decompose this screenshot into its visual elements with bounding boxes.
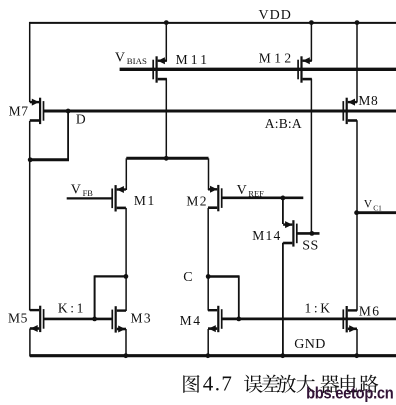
- wire M7 source lead from VDD rail: [29, 22, 31, 102]
- svg-text:M8: M8: [358, 93, 378, 108]
- caption character 差: [262, 375, 280, 392]
- wire M8 drain down to VC1 node and M6 drain: [356, 120, 358, 311]
- transistor M3: [112, 306, 126, 332]
- wire VDD top rail: [30, 22, 396, 24]
- caption character 大: [297, 375, 315, 393]
- wire C branch horizontal: [208, 275, 239, 277]
- transistor M5: [30, 306, 44, 332]
- svg-text:M14: M14: [252, 228, 281, 243]
- junction GND / M3 source: [123, 353, 128, 358]
- junction GND / M14 source: [280, 353, 285, 358]
- wire M3 source to GND: [125, 329, 127, 356]
- wire VREF gate line: [222, 197, 304, 200]
- wire M12 drain down to SS node: [310, 79, 312, 234]
- wire left rail (M7 drain down to M5 drain): [29, 121, 31, 311]
- svg-text:M4: M4: [180, 313, 202, 328]
- svg-text:1:K: 1:K: [305, 301, 333, 316]
- junction VDD / M8 source: [355, 20, 360, 25]
- wire M5 source to GND: [29, 329, 31, 357]
- junction K:1 line / gate branch: [92, 317, 97, 322]
- junction tail / M11 drain: [164, 156, 169, 161]
- junction VREF line / M14 drain tap: [281, 196, 286, 201]
- transistor M7: [30, 98, 44, 124]
- svg-text:A:B:A: A:B:A: [265, 116, 302, 131]
- caption character 电: [341, 375, 358, 393]
- svg-text:D: D: [76, 111, 86, 126]
- junction C branch / 1:K bus: [236, 317, 241, 322]
- transistor M4: [208, 306, 222, 332]
- transistor M12: [298, 56, 312, 82]
- caption character 器: [320, 375, 339, 393]
- junction VC1 node on M8 drain line: [354, 210, 359, 215]
- wire diff-pair tail line: [126, 157, 208, 160]
- wire M1 drain to M3 drain: [125, 276, 127, 311]
- junction node C on M2 drain: [206, 274, 211, 279]
- junction GND / M4 source: [206, 353, 211, 358]
- wire VFB gate line: [67, 197, 113, 199]
- ground GND bottom rail: [30, 354, 396, 357]
- wire M8 source lead from VDD: [356, 23, 358, 103]
- wire M14 source down to GND: [282, 243, 284, 356]
- wire 1:K gate bus (M4 gate to M6 gate): [222, 317, 396, 320]
- wire gate branch horizontal: [95, 275, 126, 277]
- wire M1 drain down to mirror node: [125, 208, 127, 277]
- svg-text:M12: M12: [259, 50, 295, 65]
- svg-text:K:1: K:1: [58, 301, 86, 316]
- junction M1 drain / M3 gate branch: [124, 274, 129, 279]
- wire VBIAS gate bus (M11/M12 gates): [120, 68, 396, 71]
- svg-text:M5: M5: [8, 310, 28, 325]
- wire VC1 output line: [357, 211, 396, 214]
- transistor M2: [208, 185, 222, 211]
- wire K:1 gate line (M5 gate to M3 gate): [44, 318, 113, 321]
- svg-text:M1: M1: [134, 193, 156, 208]
- junction left rail / D branch: [28, 157, 33, 162]
- wire M14 drain lead from VREF node: [282, 198, 284, 224]
- junction VDD / M11 source: [164, 20, 169, 25]
- junction VDD / M12 source: [309, 20, 314, 25]
- svg-text:bbs.eetop.cn: bbs.eetop.cn: [306, 385, 393, 403]
- svg-text:M6: M6: [359, 303, 381, 318]
- wire M4 source to GND: [207, 329, 209, 356]
- svg-text:4.7: 4.7: [203, 371, 233, 395]
- wire gate branch vertical down to K:1 line: [94, 275, 96, 319]
- wire D-to-drain horizontal branch: [30, 158, 69, 161]
- transistor M11: [153, 56, 167, 82]
- transistor M6: [343, 306, 357, 332]
- wire M11 source lead from VDD: [165, 23, 167, 61]
- wire M14 gate line to SS node: [297, 232, 320, 235]
- transistor M8: [343, 98, 357, 124]
- svg-text:GND: GND: [294, 337, 326, 352]
- wire M6 source to GND: [356, 329, 358, 356]
- svg-text:VDD: VDD: [259, 8, 292, 23]
- svg-text:M7: M7: [9, 103, 29, 118]
- caption character 误: [244, 375, 262, 393]
- junction SS node (M12 drain / M14 gate): [310, 231, 315, 236]
- caption character 路: [360, 375, 379, 393]
- transistor M14: [283, 220, 297, 246]
- caption character 图: [183, 375, 199, 393]
- wire D-to-drain vertical branch: [67, 111, 69, 160]
- wire M1 source lead from tail: [125, 158, 127, 190]
- svg-text:SS: SS: [302, 239, 318, 254]
- wire M11 drain to diff-pair tail: [165, 79, 167, 159]
- svg-text:M11: M11: [176, 52, 211, 67]
- wire M12 source lead from VDD: [310, 23, 312, 61]
- wire node D bus (M7 gate to M8 gate): [44, 110, 396, 113]
- wire C branch vertical down to 1:K bus: [238, 275, 240, 319]
- caption character 放: [277, 375, 295, 393]
- wire M2 source lead from tail: [208, 158, 210, 190]
- junction GND / M6 source: [354, 353, 359, 358]
- transistor M1: [112, 185, 126, 211]
- svg-text:M3: M3: [131, 310, 153, 325]
- wire M2 drain down to node C and M4: [207, 208, 209, 311]
- junction on D bus above M7 drain branch: [66, 109, 71, 114]
- svg-text:M2: M2: [186, 193, 208, 208]
- svg-text:C: C: [183, 270, 192, 285]
